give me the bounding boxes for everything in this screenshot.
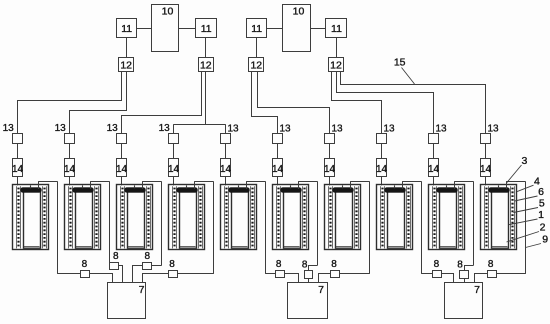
- svg-text:14: 14: [64, 164, 76, 175]
- cell 10 right electrode strip: [510, 186, 512, 248]
- valve box 8e: [276, 271, 285, 278]
- leader line 3: [507, 165, 522, 183]
- valve box 8i: [460, 271, 469, 279]
- cell 9 right electrode strip: [458, 186, 460, 248]
- cell 6 cap output stub: [298, 181, 300, 189]
- svg-text:8: 8: [302, 260, 308, 271]
- cell 3 cap output stub: [142, 181, 144, 189]
- box 10 (right controller): [283, 5, 311, 52]
- bus cell10 to 8j: [496, 273, 526, 275]
- box 13 col8: [377, 134, 387, 144]
- cell 6 right electrode strip: [302, 186, 304, 248]
- box 13 col3: [117, 134, 127, 144]
- box 11 #4: [326, 19, 347, 38]
- wire 11 to 12 #4: [336, 38, 338, 58]
- cell 8 black cap electrode: [385, 188, 406, 193]
- box 10 (left controller): [152, 5, 179, 52]
- valve box 8g: [331, 271, 340, 278]
- cell 4 left electrode strip: [172, 186, 174, 248]
- leader line 6: [515, 196, 538, 201]
- cell 3 inner vessel: [128, 191, 145, 249]
- svg-text:12: 12: [120, 60, 132, 72]
- svg-text:13: 13: [228, 123, 240, 134]
- wire 11 to 12 #3: [256, 38, 258, 58]
- cell 8 inner vessel: [388, 191, 405, 249]
- cell 2 cap centre tick: [82, 185, 84, 188]
- svg-text:1: 1: [538, 209, 544, 221]
- box 14 col10: [481, 159, 491, 177]
- cell 2 right electrode strip: [94, 186, 96, 248]
- wire 14 to cell col1: [17, 176, 19, 185]
- bus 8d to pump7-1: [143, 274, 169, 283]
- cell 3 left electrode strip: [120, 186, 122, 248]
- svg-text:14: 14: [324, 164, 336, 175]
- svg-text:9: 9: [542, 234, 548, 246]
- bus 8b to pump7-1: [119, 266, 123, 283]
- cell 10 drop wire: [525, 181, 527, 274]
- box 13 col2: [65, 134, 75, 144]
- bus cell7 to 8g: [339, 273, 369, 275]
- wire 13-14 col7: [329, 143, 331, 159]
- cell 9 cap centre tick: [446, 185, 448, 188]
- cell 1 inner vessel: [24, 191, 41, 249]
- cell 3 right electrode strip: [146, 186, 148, 248]
- bus 8j to pump7-3: [475, 274, 488, 283]
- bus 8a to pump7-1: [90, 274, 113, 283]
- svg-text:11: 11: [121, 23, 132, 35]
- bus cell9 to 8i (top jog): [465, 266, 474, 271]
- cell 10 inner vessel: [492, 191, 509, 249]
- valve box 8d: [169, 271, 178, 278]
- cell 8 left electrode strip: [380, 186, 382, 248]
- box 12 #1: [119, 58, 134, 72]
- wire 11-10 right module: [267, 28, 283, 30]
- wire 14 to cell col8: [381, 176, 383, 185]
- cell 6 black cap electrode: [281, 188, 302, 193]
- box 13 col9: [429, 134, 439, 144]
- wire 13-14 col3: [121, 143, 123, 159]
- svg-text:14: 14: [376, 164, 388, 175]
- bus 8c to pump7-1: [133, 266, 143, 283]
- cell 1 black cap electrode: [21, 188, 42, 193]
- cell 7 right electrode strip: [354, 186, 356, 248]
- svg-text:15: 15: [394, 56, 406, 68]
- box 13 col7: [325, 134, 335, 144]
- cell 5 inner vessel: [232, 191, 249, 249]
- box 11 #2: [196, 19, 217, 38]
- cell 7 cap centre tick: [342, 185, 344, 188]
- cell 7 top output wire: [350, 181, 369, 183]
- box 14 col2: [65, 159, 75, 177]
- svg-text:13: 13: [3, 123, 15, 134]
- svg-text:5: 5: [539, 197, 545, 209]
- wire 14 to cell col7: [329, 176, 331, 185]
- cell 7 drop wire: [369, 181, 371, 274]
- box 14 col7: [325, 159, 335, 177]
- cell 3 black cap electrode: [125, 188, 146, 193]
- cell 9 drop wire: [473, 181, 475, 265]
- svg-text:8: 8: [145, 251, 151, 262]
- leader line 4: [517, 185, 534, 191]
- pump box 7 #3: [445, 283, 483, 319]
- svg-text:11: 11: [331, 23, 342, 35]
- wire 13-14 col8: [381, 143, 383, 159]
- cell 8 cap output stub: [402, 181, 404, 189]
- cell 9 cap output stub: [454, 181, 456, 189]
- valve box 8b: [110, 263, 119, 270]
- cell 6 cap centre tick: [290, 185, 292, 188]
- cell 10 left electrode strip: [484, 186, 486, 248]
- bus 8e to pump7-2: [285, 274, 299, 283]
- box 14 col6: [273, 159, 283, 177]
- wire 14 to cell col6: [277, 176, 279, 185]
- svg-text:12: 12: [330, 60, 342, 72]
- cell 1 right electrode strip: [42, 186, 44, 248]
- wire 14 to cell col9: [433, 176, 435, 185]
- wire 12#2 to 13 col3: [122, 72, 202, 134]
- svg-text:7: 7: [474, 284, 480, 296]
- svg-text:12: 12: [250, 60, 262, 72]
- valve box 8c: [143, 263, 152, 270]
- cell 5 right electrode strip: [250, 186, 252, 248]
- bus cell3 to 8c: [152, 265, 162, 267]
- wire 12#3 to 13 col7: [258, 72, 330, 134]
- wire 12#1 to 13 col1: [18, 72, 122, 134]
- svg-text:12: 12: [200, 60, 212, 72]
- cell 2 inner vessel: [76, 191, 93, 249]
- cell 4 cap output stub: [194, 181, 196, 189]
- cell 4 right electrode strip: [198, 186, 200, 248]
- svg-text:14: 14: [272, 164, 284, 175]
- cell unit 2 outer housing: [65, 185, 101, 250]
- wire 14 to cell col10: [485, 176, 487, 185]
- leader line 9: [526, 244, 542, 248]
- cell 5 left electrode strip: [224, 186, 226, 248]
- svg-text:14: 14: [168, 164, 180, 175]
- cell 7 left electrode strip: [328, 186, 330, 248]
- cell unit 7 outer housing: [325, 185, 361, 250]
- cell 7 black cap electrode: [333, 188, 354, 193]
- svg-text:13: 13: [107, 123, 119, 134]
- cell 8 cap centre tick: [394, 185, 396, 188]
- cell 6 top output wire: [298, 181, 317, 183]
- cell 5 cap output stub: [246, 181, 248, 189]
- svg-text:13: 13: [384, 123, 396, 134]
- leader line 1: [509, 219, 538, 225]
- pump box 7 #2: [288, 283, 328, 319]
- cell 3 drop wire: [161, 181, 163, 265]
- box 13 col4: [169, 134, 179, 144]
- cell 5 top output wire: [246, 181, 265, 183]
- cell 4 cap centre tick: [186, 185, 188, 188]
- box 14 col5: [221, 159, 231, 177]
- wire 13-14 col4: [173, 143, 175, 159]
- cell unit 9 outer housing: [429, 185, 465, 250]
- cell 6 drop wire: [317, 181, 319, 265]
- wire 13-14 col5: [225, 143, 227, 159]
- wire 14 to cell col5: [225, 176, 227, 185]
- box 12 #2: [199, 58, 214, 72]
- cell 5 black cap electrode: [229, 188, 250, 193]
- svg-text:7: 7: [318, 284, 324, 296]
- cell 6 left electrode strip: [276, 186, 278, 248]
- cell 1 top output wire: [38, 181, 57, 183]
- svg-text:8: 8: [82, 259, 88, 270]
- cell unit 3 outer housing: [117, 185, 153, 250]
- box 11 #3: [247, 19, 267, 38]
- svg-text:10: 10: [162, 6, 174, 18]
- svg-text:3: 3: [521, 155, 527, 167]
- bus cell8 to 8h: [422, 273, 434, 275]
- box 12 #3: [249, 58, 264, 72]
- svg-text:11: 11: [251, 23, 262, 35]
- cell 2 drop wire: [109, 181, 111, 262]
- wire 12#3 to 13 col6: [252, 72, 278, 134]
- svg-text:14: 14: [220, 164, 232, 175]
- cell unit 10 outer housing: [481, 185, 517, 250]
- cell unit 6 outer housing: [273, 185, 309, 250]
- box 13 col5: [221, 134, 231, 144]
- pump box 7 #1: [108, 283, 146, 319]
- cell 5 drop wire: [265, 181, 267, 274]
- wire 14 to cell col2: [69, 176, 71, 185]
- cell 10 black cap electrode: [489, 188, 510, 193]
- cell 10 top output wire: [506, 181, 525, 183]
- wire 13-14 col10: [485, 143, 487, 159]
- box 14 col9: [429, 159, 439, 177]
- svg-text:8: 8: [113, 251, 119, 262]
- cell 9 left electrode strip: [432, 186, 434, 248]
- cell 2 black cap electrode: [73, 188, 94, 193]
- cell 10 cap output stub: [506, 181, 508, 189]
- cell 4 black cap electrode: [177, 188, 198, 193]
- box 13 col1: [13, 134, 23, 144]
- cell 4 drop wire: [213, 181, 215, 274]
- cell 2 left electrode strip: [68, 186, 70, 248]
- box 14 col4: [169, 159, 179, 177]
- cell 7 cap output stub: [350, 181, 352, 189]
- svg-text:7: 7: [139, 284, 145, 296]
- valve box 8a: [81, 271, 90, 278]
- svg-text:10: 10: [293, 6, 305, 18]
- svg-text:14: 14: [480, 164, 492, 175]
- cell 8 right electrode strip: [406, 186, 408, 248]
- valve box 8h: [433, 271, 442, 278]
- bus cell5 to 8e: [266, 273, 276, 275]
- svg-text:13: 13: [332, 123, 344, 134]
- svg-text:14: 14: [12, 164, 24, 175]
- bus 8i to pump7-3: [464, 278, 466, 282]
- wire 13-14 col6: [277, 143, 279, 159]
- cell 6 inner vessel: [284, 191, 301, 249]
- svg-text:8: 8: [169, 259, 175, 270]
- wire 13-14 col9: [433, 143, 435, 159]
- wire 13-14 col2: [69, 143, 71, 159]
- cell unit 4 outer housing: [169, 185, 205, 250]
- cell 8 top output wire: [402, 181, 421, 183]
- cell 5 cap centre tick: [238, 185, 240, 188]
- svg-text:13: 13: [159, 123, 171, 134]
- svg-text:11: 11: [201, 23, 212, 35]
- cell unit 5 outer housing: [221, 185, 257, 250]
- wire 12#4 to 13 col10 (long wire, labelled 15): [341, 72, 486, 134]
- cell 3 cap centre tick: [134, 185, 136, 188]
- cell 4 inner vessel: [180, 191, 197, 249]
- wire 12#1 to 13 col2: [70, 72, 127, 134]
- svg-text:8: 8: [488, 259, 494, 270]
- bus 8h to pump7-3: [442, 274, 454, 283]
- wire 14 to cell col4: [173, 176, 175, 185]
- cell 7 inner vessel: [336, 191, 353, 249]
- bus cell6 to 8f (top jog): [309, 266, 318, 271]
- svg-text:14: 14: [428, 164, 440, 175]
- cell 1 cap centre tick: [30, 185, 32, 188]
- wire 12#4 to 13 col9: [337, 72, 434, 134]
- leader line 5: [514, 208, 539, 213]
- box 14 col3: [117, 159, 127, 177]
- valve box 8j: [488, 271, 497, 278]
- cell unit 8 outer housing: [377, 185, 413, 250]
- box 11 #1: [117, 19, 137, 38]
- cell 2 cap output stub: [90, 181, 92, 189]
- svg-text:13: 13: [280, 123, 292, 134]
- cell 1 drop wire: [57, 181, 59, 274]
- svg-text:6: 6: [538, 186, 544, 198]
- box 14 col8: [377, 159, 387, 177]
- wire 11 to 12 #2: [205, 38, 207, 58]
- valve box 8f: [305, 271, 313, 279]
- box 14 col1: [13, 159, 23, 177]
- svg-text:13: 13: [436, 123, 448, 134]
- svg-text:14: 14: [116, 164, 128, 175]
- cell 8 drop wire: [421, 181, 423, 274]
- box 12 #4: [329, 58, 344, 72]
- box 13 col10: [481, 134, 491, 144]
- leader line for 15: [402, 68, 415, 85]
- bus cell4 to 8d: [177, 273, 213, 275]
- svg-text:8: 8: [276, 259, 282, 270]
- cell 4 top output wire: [194, 181, 213, 183]
- svg-text:13: 13: [55, 123, 67, 134]
- cell 9 black cap electrode: [437, 188, 458, 193]
- cell 2 top output wire: [90, 181, 109, 183]
- bus 8g to pump7-2: [319, 274, 331, 283]
- svg-text:13: 13: [488, 123, 500, 134]
- wire 13-14 col1: [17, 143, 19, 159]
- svg-text:2: 2: [540, 222, 546, 234]
- svg-text:8: 8: [434, 259, 440, 270]
- cell 10 cap centre tick: [498, 185, 500, 188]
- cell 9 inner vessel: [440, 191, 457, 249]
- svg-text:8: 8: [457, 260, 463, 271]
- wire 11-10 left module: [137, 28, 152, 30]
- cell unit 1 outer housing: [13, 185, 49, 250]
- wire 14 to cell col3: [121, 176, 123, 185]
- wire 12#4 to 13 col8: [332, 72, 382, 134]
- bus cell1 to 8a: [58, 273, 82, 275]
- cell 3 top output wire: [142, 181, 161, 183]
- box 13 col6: [273, 134, 283, 144]
- cell 9 top output wire: [454, 181, 473, 183]
- wire 12#2 to 13 col4 and col5 (T branch): [205, 71, 207, 124]
- wire 11 to 12 #1: [126, 38, 128, 58]
- cell 1 cap output stub: [38, 181, 40, 189]
- leader line 2: [507, 232, 540, 243]
- bus 8f to pump7-2: [308, 278, 310, 282]
- svg-text:8: 8: [331, 259, 337, 270]
- cell 1 left electrode strip: [16, 186, 18, 248]
